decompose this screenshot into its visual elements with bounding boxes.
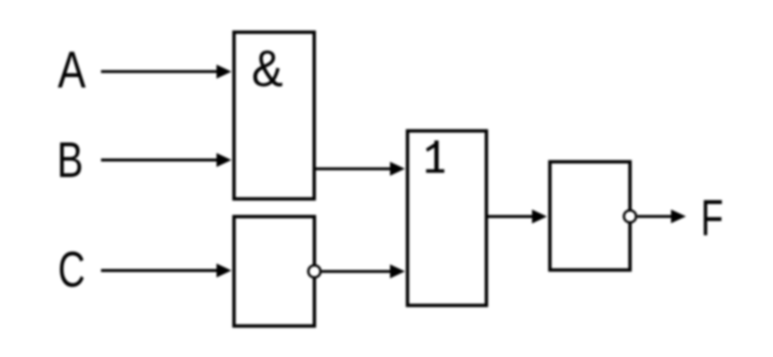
wire A input: [101, 70, 219, 73]
svg-text:C: C: [58, 240, 85, 297]
arrowhead wire U3-U4: [532, 210, 547, 224]
arrowhead wire U1-U3: [390, 162, 405, 176]
wire U3 output to U4: [486, 215, 534, 218]
OR gate U3 symbol 1: [426, 141, 444, 173]
NOT gate U2 inversion bubble: [308, 265, 320, 277]
svg-text:F: F: [701, 189, 724, 246]
wire B input: [101, 159, 219, 162]
NOT gate U4 box: [550, 162, 630, 270]
arrowhead wire A: [217, 65, 232, 79]
OR gate U3 box: [408, 131, 487, 306]
arrowhead wire U2-U3: [390, 264, 405, 278]
wire U2 output to U3: [322, 270, 393, 273]
svg-text:A: A: [58, 42, 86, 100]
svg-text:B: B: [57, 131, 83, 188]
wire C input: [101, 269, 219, 272]
AND gate U1 box: [234, 32, 314, 199]
arrowhead wire C: [217, 264, 232, 278]
arrowhead wire B: [217, 153, 232, 167]
NOT gate U4 inversion bubble: [624, 210, 636, 222]
svg-text:&: &: [252, 40, 283, 97]
arrowhead wire F: [671, 210, 686, 224]
wire U1 output to U3: [314, 167, 393, 170]
wire U4 output to F: [637, 215, 673, 218]
NOT gate U2 box: [234, 217, 314, 326]
